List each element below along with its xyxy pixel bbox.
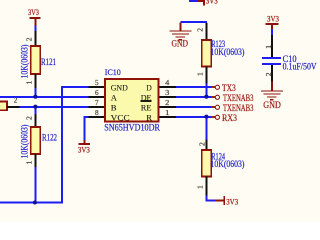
- svg-text:10K(0603): 10K(0603): [211, 159, 245, 169]
- svg-text:R122: R122: [42, 133, 57, 143]
- svg-text:6: 6: [95, 88, 99, 97]
- svg-text:10K(0603): 10K(0603): [20, 125, 30, 159]
- svg-text:RE: RE: [141, 103, 152, 113]
- svg-text:1: 1: [198, 185, 205, 189]
- svg-text:4: 4: [165, 78, 169, 87]
- svg-text:1: 1: [266, 44, 273, 48]
- svg-text:SN65HVD10DR: SN65HVD10DR: [104, 124, 160, 134]
- svg-text:0.1uF/50V: 0.1uF/50V: [283, 62, 317, 72]
- svg-text:2: 2: [197, 27, 204, 31]
- svg-text:GND: GND: [263, 100, 281, 111]
- svg-text:5: 5: [95, 78, 99, 87]
- svg-text:IC10: IC10: [105, 68, 121, 77]
- svg-text:8: 8: [95, 108, 99, 117]
- svg-text:TX3: TX3: [222, 84, 236, 94]
- svg-text:2: 2: [26, 37, 33, 41]
- svg-text:7: 7: [95, 98, 99, 107]
- svg-text:D: D: [146, 83, 152, 93]
- svg-text:2: 2: [165, 98, 169, 107]
- svg-text:3V3: 3V3: [226, 197, 238, 207]
- svg-text:2: 2: [26, 116, 33, 120]
- svg-text:1: 1: [26, 80, 33, 84]
- svg-text:2: 2: [266, 72, 273, 76]
- svg-text:R: R: [146, 113, 152, 123]
- svg-text:A: A: [111, 93, 118, 103]
- svg-text:GND: GND: [172, 38, 189, 49]
- svg-text:2: 2: [199, 142, 206, 146]
- svg-text:1: 1: [197, 72, 204, 76]
- svg-text:B: B: [111, 103, 117, 113]
- svg-text:TXENAB3: TXENAB3: [223, 94, 254, 104]
- svg-text:2: 2: [14, 97, 18, 105]
- svg-text:R121: R121: [41, 57, 56, 67]
- svg-text:3V3: 3V3: [267, 14, 279, 24]
- svg-text:1: 1: [165, 108, 169, 117]
- svg-text:3V3: 3V3: [206, 0, 218, 5]
- svg-text:10K(0603): 10K(0603): [211, 47, 245, 57]
- svg-text:VCC: VCC: [111, 113, 130, 123]
- svg-text:RX3: RX3: [222, 114, 237, 124]
- svg-text:1: 1: [26, 160, 33, 164]
- svg-text:TXENAB3: TXENAB3: [223, 104, 254, 114]
- svg-text:3V3: 3V3: [28, 7, 39, 17]
- svg-text:10K(0603): 10K(0603): [20, 45, 30, 79]
- svg-text:GND: GND: [111, 83, 128, 93]
- svg-text:3: 3: [165, 88, 169, 97]
- svg-text:3V3: 3V3: [78, 144, 90, 154]
